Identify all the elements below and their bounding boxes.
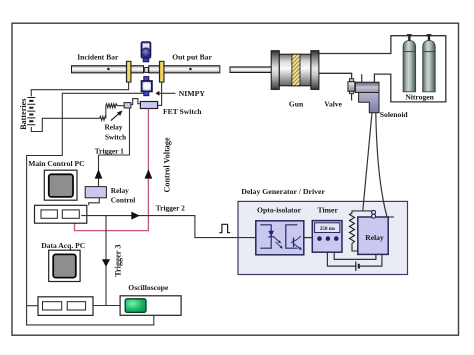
trigger 1 wire bbox=[99, 108, 130, 187]
pipe gun to nitrogen manifold and solenoid bbox=[319, 36, 446, 102]
optical transducer (top) bbox=[141, 42, 150, 62]
relay top terminal stub bbox=[388, 216, 394, 218]
svg-text:Timer: Timer bbox=[318, 206, 339, 215]
battery B2 (in delay driver) bbox=[355, 261, 357, 271]
svg-text:Trigger 3: Trigger 3 bbox=[114, 245, 123, 277]
strain gauge mark on output bar bbox=[189, 68, 191, 70]
control voltage arrow bbox=[145, 169, 153, 178]
svg-text:Incident Bar: Incident Bar bbox=[77, 53, 119, 62]
wire timer to relay bottom bbox=[334, 252, 376, 259]
wire relay control to PC bbox=[89, 198, 100, 206]
data acq PC bbox=[38, 241, 93, 316]
svg-text:Trigger 1: Trigger 1 bbox=[95, 147, 124, 156]
battery B1 stack bbox=[27, 98, 35, 125]
main control PC bbox=[28, 159, 87, 223]
striker bar / barrel rod bbox=[230, 67, 275, 73]
svg-text:Main Control PC: Main Control PC bbox=[28, 159, 84, 168]
trigger 2 wire bbox=[81, 216, 256, 238]
strain gauge station 1 bbox=[126, 61, 131, 82]
control voltage wire (pink) FET to main PC bbox=[75, 109, 149, 231]
specimen bbox=[145, 67, 149, 72]
trigger 3 wire bbox=[105, 216, 107, 305]
solenoid L1 bbox=[355, 74, 379, 113]
NIMPY sensor (below specimen) bbox=[142, 77, 152, 96]
valve V1 bbox=[348, 79, 355, 101]
wire solenoid to relay (left lead) bbox=[363, 113, 372, 211]
strain gauge station 2 bbox=[159, 61, 164, 82]
resistor R4 (upper) bbox=[106, 104, 118, 108]
svg-text:250 ms: 250 ms bbox=[320, 226, 335, 232]
wire battery to relay bbox=[359, 254, 382, 266]
wire opto to timer bbox=[304, 237, 313, 239]
pipe gun to valve bbox=[319, 73, 352, 79]
timer U2 bbox=[312, 206, 342, 253]
resistor R3 (lower) bbox=[100, 116, 106, 120]
relay switch S1 bbox=[124, 103, 131, 108]
wire data acq PC to oscilloscope bbox=[93, 305, 120, 307]
FET switch U3 bbox=[140, 102, 157, 109]
svg-text:NIMPY: NIMPY bbox=[179, 89, 206, 98]
wire resistor to relay switch bbox=[117, 105, 124, 107]
svg-text:Gun: Gun bbox=[289, 99, 304, 108]
oscilloscope bbox=[120, 283, 181, 315]
svg-text:Switch: Switch bbox=[105, 133, 126, 142]
wire between resistors bbox=[105, 106, 107, 119]
trigger 2 arrow bbox=[131, 212, 140, 220]
svg-text:FET Switch: FET Switch bbox=[163, 107, 202, 116]
trigger 1 arrow bbox=[95, 169, 103, 178]
wire timer to battery bus bbox=[327, 252, 355, 266]
svg-text:Opto-isolator: Opto-isolator bbox=[257, 206, 302, 215]
output bar bbox=[149, 66, 220, 73]
node: relay coil top line bbox=[351, 210, 374, 212]
relay coil terminals bbox=[372, 210, 376, 214]
svg-text:Relay: Relay bbox=[365, 233, 384, 242]
wire battery- to relay switch branch bbox=[31, 118, 99, 131]
gas gun bbox=[271, 51, 319, 90]
incident bar bbox=[72, 66, 144, 73]
opto-isolator U1 bbox=[256, 206, 304, 255]
NIMPY pointer arrow and label bbox=[156, 91, 160, 96]
wire relay switch to FET switch bbox=[131, 99, 141, 105]
svg-text:Delay Generator / Driver: Delay Generator / Driver bbox=[241, 187, 325, 196]
wire NIMPY signal bus to data acq and oscilloscope bbox=[27, 93, 154, 325]
nitrogen tank 1 bbox=[403, 35, 416, 92]
nitrogen tank 2 bbox=[423, 35, 436, 92]
strain gauge mark on incident bar bbox=[107, 68, 109, 70]
svg-text:Data Acq. PC: Data Acq. PC bbox=[41, 241, 85, 250]
svg-text:Nitrogen: Nitrogen bbox=[405, 93, 434, 102]
svg-text:Valve: Valve bbox=[324, 99, 342, 108]
trigger 3 arrow bbox=[102, 259, 110, 267]
svg-text:Relay: Relay bbox=[111, 186, 129, 195]
svg-text:Control: Control bbox=[111, 196, 136, 205]
wire battery+ to strain gauge 1 bbox=[31, 82, 128, 96]
wire solenoid to relay (right lead) bbox=[376, 113, 387, 217]
resistor R2 (relay coil dropper) bbox=[350, 211, 358, 251]
wire branch into data acq pc bbox=[27, 305, 39, 307]
trigger pulse glyph bbox=[219, 224, 230, 232]
relay control box bbox=[85, 187, 106, 198]
relay K2 bbox=[358, 217, 388, 254]
wire strain gauge 2 to FET switch bbox=[158, 82, 162, 105]
svg-text:Batteries: Batteries bbox=[19, 99, 28, 130]
svg-text:Oscilloscope: Oscilloscope bbox=[128, 283, 169, 292]
svg-text:Out put Bar: Out put Bar bbox=[172, 53, 212, 62]
svg-text:Trigger 2: Trigger 2 bbox=[156, 204, 185, 213]
svg-text:Solenoid: Solenoid bbox=[380, 110, 409, 119]
svg-text:Relay: Relay bbox=[104, 122, 122, 131]
delay generator / driver enclosure box bbox=[238, 187, 408, 275]
svg-text:Control Voltage: Control Voltage bbox=[163, 137, 172, 192]
